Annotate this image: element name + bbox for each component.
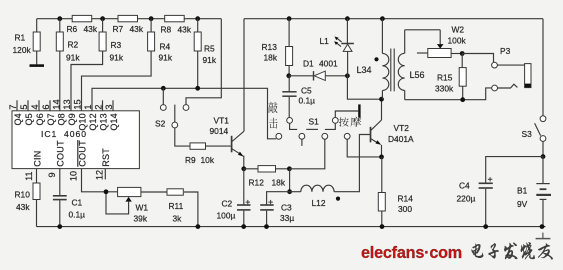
node: battery top junction <box>541 154 546 159</box>
resistor R7 <box>118 15 138 21</box>
svg-text:0.1µ: 0.1µ <box>299 96 316 106</box>
capacitor C2 <box>237 169 251 227</box>
svg-text:15: 15 <box>73 99 83 109</box>
svg-text:C5: C5 <box>301 86 312 96</box>
svg-text:Q8: Q8 <box>56 113 66 125</box>
switch S1 massage contact <box>332 118 338 124</box>
wire: VT1 collector to right rail <box>243 19 245 132</box>
wire: VT2 collector up <box>381 99 383 120</box>
wire: ground rail <box>37 226 546 228</box>
svg-text:300: 300 <box>398 204 412 214</box>
diode D1 4001 <box>289 71 348 80</box>
node: rail tap R2 <box>57 16 62 21</box>
capacitor C1 <box>53 169 67 227</box>
resistor R14 <box>378 193 385 227</box>
transistor VT1 9014 <box>232 131 244 157</box>
resistor R6 <box>72 15 92 21</box>
svg-text:P3: P3 <box>500 46 511 56</box>
node: D1 anode junction <box>286 73 291 78</box>
label knock (qiao ji) <box>269 102 278 129</box>
node: VT2 collector junction <box>379 97 384 102</box>
wire: R3 to IC pin 13 <box>71 51 103 111</box>
svg-text:12: 12 <box>94 170 104 180</box>
svg-text:9V: 9V <box>517 199 528 209</box>
svg-text:3: 3 <box>104 104 114 109</box>
wire: L12 left lead <box>290 191 301 193</box>
svg-text:elecfans·com: elecfans·com <box>361 244 462 262</box>
winding polarity dot L12 <box>336 197 340 201</box>
wire: emitter to R14 <box>381 157 383 193</box>
svg-text:9: 9 <box>47 172 57 177</box>
switch S3 <box>535 116 546 142</box>
wire: battery node to C4 <box>486 157 543 183</box>
svg-text:13: 13 <box>62 99 72 109</box>
resistor R10 <box>33 169 40 227</box>
svg-text:R9: R9 <box>185 155 196 165</box>
LED L1 <box>334 19 354 76</box>
wire: R2 to IC pin 14 <box>59 51 61 111</box>
svg-text:C3: C3 <box>281 203 292 213</box>
wire: left top supply rail <box>37 18 222 20</box>
connector P3 tip contact <box>492 62 498 68</box>
node: C4 ground <box>483 224 488 229</box>
svg-text:R3: R3 <box>111 40 122 50</box>
node: C1 ground <box>57 224 62 229</box>
wire: IC pin10 to W1 <box>82 169 118 192</box>
node: L34 top <box>380 16 385 21</box>
node: S2 stub junction <box>161 86 166 91</box>
svg-text:S3: S3 <box>522 129 533 139</box>
wire: P3 tip to plug <box>497 64 524 66</box>
svg-text:43k: 43k <box>84 24 98 34</box>
resistor R4 <box>148 19 155 51</box>
logo trademark mark <box>542 233 544 239</box>
wire: L56 bottom rail <box>405 88 492 100</box>
battery B1 9V <box>536 157 551 227</box>
svg-text:4001: 4001 <box>319 59 338 69</box>
svg-text:91k: 91k <box>159 53 173 63</box>
resistor R8 <box>165 15 185 21</box>
svg-text:10: 10 <box>69 171 79 181</box>
svg-text:91k: 91k <box>203 55 217 65</box>
svg-text:91k: 91k <box>66 53 80 63</box>
svg-text:6: 6 <box>41 104 51 109</box>
svg-text:R8: R8 <box>161 25 172 35</box>
connector P3 ring contact <box>492 85 498 91</box>
svg-text:0.1µ: 0.1µ <box>69 210 86 220</box>
wire: S1 to VT2 emitter <box>347 139 381 157</box>
svg-text:18k: 18k <box>264 53 278 63</box>
switch S1 pole contacts <box>276 133 282 139</box>
switch S2 <box>160 105 189 128</box>
svg-text:43k: 43k <box>16 202 30 212</box>
svg-text:Q6: Q6 <box>35 113 45 125</box>
svg-text:S2: S2 <box>155 119 166 129</box>
svg-text:L56: L56 <box>410 70 425 80</box>
svg-text:100k: 100k <box>448 36 467 46</box>
svg-text:Q13: Q13 <box>98 113 108 130</box>
node: VT1 emitter junction <box>241 166 246 171</box>
wire: VT2 emitter down <box>381 145 383 157</box>
svg-text:C4: C4 <box>459 181 470 191</box>
IC pin stubs (7,5,4,6,2,3) <box>16 100 18 111</box>
wire: S2 common to R9 <box>175 128 190 146</box>
svg-text:33µ: 33µ <box>280 213 294 223</box>
logo Chinese (dianzi fashaoyou) <box>472 242 554 260</box>
resistor R5 <box>194 19 201 89</box>
transformer core <box>390 49 392 92</box>
svg-text:91k: 91k <box>110 53 124 63</box>
node: R5 bottom junction <box>195 86 200 91</box>
svg-text:COUT: COUT <box>56 140 66 167</box>
svg-text:L34: L34 <box>357 65 372 75</box>
resistor R3 <box>99 19 106 51</box>
potentiometer W1 <box>106 187 141 214</box>
svg-text:C2: C2 <box>222 199 233 209</box>
svg-text:5: 5 <box>19 104 29 109</box>
svg-text:Q7: Q7 <box>46 113 56 125</box>
wire: right top supply rail <box>244 18 543 20</box>
svg-text:43k: 43k <box>178 25 192 35</box>
resistor R2 <box>56 19 63 51</box>
node: B1 ground <box>540 224 545 229</box>
wire: S3 to battery node <box>542 141 544 156</box>
wire: VT1 emitter down <box>243 156 245 169</box>
potentiometer W2 <box>417 30 462 58</box>
ground <box>30 64 45 67</box>
svg-text:R13: R13 <box>262 42 278 52</box>
svg-text:S1: S1 <box>309 117 320 127</box>
node: R11 ground <box>196 224 201 229</box>
svg-text:IC1 4060: IC1 4060 <box>41 129 86 139</box>
svg-text:120k: 120k <box>13 45 32 55</box>
resistor R13 <box>286 19 293 76</box>
svg-text:3k: 3k <box>173 214 183 224</box>
wire: R4 to IC pin 15 <box>82 51 152 111</box>
wire: S2 left contact stub <box>162 88 164 104</box>
svg-text:W2: W2 <box>452 25 465 35</box>
electrode bar <box>358 104 360 117</box>
node: L1 top <box>345 16 350 21</box>
svg-text:D1: D1 <box>303 59 314 69</box>
IC pin 12 stub <box>104 169 106 180</box>
svg-text:R2: R2 <box>68 40 79 50</box>
node: C2 ground <box>241 224 246 229</box>
wire: S1 nc stub <box>301 139 303 146</box>
wire: L12 to VT2 base <box>334 135 370 192</box>
wire: D1 junction to VT2 collector <box>347 76 381 99</box>
svg-text:W1: W1 <box>136 203 149 213</box>
svg-text:18k: 18k <box>272 178 286 188</box>
svg-text:Q4: Q4 <box>13 113 23 125</box>
svg-text:39k: 39k <box>134 214 148 224</box>
svg-text:Q5: Q5 <box>24 113 34 125</box>
svg-text:VT1: VT1 <box>214 116 230 126</box>
node: R13 top <box>287 16 292 21</box>
svg-text:1: 1 <box>83 104 93 109</box>
capacitor C3 <box>260 192 289 227</box>
wire: IC pin1 rail to knock contact <box>92 88 276 139</box>
P3 ring spring contact <box>498 84 518 88</box>
svg-text:330k: 330k <box>435 84 454 94</box>
svg-text:11: 11 <box>24 171 34 180</box>
wire: W1 to R11 <box>141 191 167 193</box>
node: rail tap R5 <box>195 16 200 21</box>
node: W1 left junction <box>104 189 109 194</box>
capacitor C5 <box>282 76 296 118</box>
svg-text:VT2: VT2 <box>394 123 410 133</box>
wire: left rail down to S2 right contact <box>186 19 221 105</box>
svg-text:CIN: CIN <box>32 150 42 166</box>
capacitor C4 <box>479 177 493 227</box>
winding polarity dot L34 <box>374 57 378 61</box>
node: R15 bottom junction <box>460 97 465 102</box>
node: C3 ground <box>264 224 269 229</box>
svg-text:R5: R5 <box>204 44 215 54</box>
IC U1 4060 body <box>12 111 139 169</box>
svg-text:Q9: Q9 <box>67 113 77 125</box>
svg-text:R6: R6 <box>67 24 78 34</box>
svg-text:14: 14 <box>52 99 62 109</box>
node: VT2 emitter junction <box>379 155 384 160</box>
svg-text:43k: 43k <box>130 24 144 34</box>
node: W2/R15 junction <box>460 51 465 56</box>
svg-text:R15: R15 <box>437 73 453 83</box>
resistor R9 <box>190 143 206 149</box>
inductor L12 <box>301 185 334 192</box>
wire: R11 to ground <box>184 192 198 227</box>
inductor L56 secondary <box>398 30 404 100</box>
resistor R1 <box>33 19 40 65</box>
svg-text:L12: L12 <box>312 198 326 208</box>
svg-text:D401A: D401A <box>388 134 414 144</box>
svg-text:10k: 10k <box>201 155 215 165</box>
wire: right rail down to S3 <box>542 19 544 116</box>
transistor VT2 D401A <box>371 120 382 145</box>
svg-text:7: 7 <box>8 104 18 109</box>
svg-text:R11: R11 <box>169 201 184 211</box>
svg-text:2: 2 <box>94 104 104 109</box>
svg-text:100µ: 100µ <box>217 211 236 221</box>
node: D1 cathode junction <box>345 73 350 78</box>
label massage (an mo) <box>339 117 362 127</box>
svg-text:R14: R14 <box>398 194 414 204</box>
svg-text:R10: R10 <box>15 190 31 200</box>
svg-text:R1: R1 <box>15 33 26 43</box>
svg-text:COUT: COUT <box>77 140 87 167</box>
svg-text:B1: B1 <box>517 186 528 196</box>
node: C3/L12 junction <box>287 189 292 194</box>
svg-text:220µ: 220µ <box>457 194 476 204</box>
resistor R11 <box>167 189 183 195</box>
svg-text:R12: R12 <box>249 178 265 188</box>
svg-text:R4: R4 <box>160 42 171 52</box>
svg-text:C1: C1 <box>72 198 83 208</box>
connector plug body <box>525 64 531 88</box>
node: R14 ground <box>380 224 385 229</box>
svg-text:9014: 9014 <box>210 126 229 136</box>
switch S1 knock contact <box>287 118 293 124</box>
node: rail tap R3 <box>100 16 105 21</box>
resistor R15 <box>459 54 466 100</box>
wire: massage contact to electrode <box>335 111 358 118</box>
svg-text:Q14: Q14 <box>109 113 119 130</box>
svg-text:4: 4 <box>30 104 40 109</box>
node: R12 right junction <box>287 166 292 171</box>
svg-text:RST: RST <box>101 148 111 167</box>
wire: R9 to VT1 base <box>206 145 231 147</box>
svg-text:R7: R7 <box>113 24 124 34</box>
svg-text:Q12: Q12 <box>88 113 98 130</box>
wire: down to C3/L12 node <box>289 169 291 192</box>
wire: W2 junction to P3 tip <box>462 54 493 63</box>
wire: L56 top to W2 wiper <box>405 29 441 31</box>
svg-text:L1: L1 <box>320 36 330 46</box>
switch S1 levers <box>290 123 298 129</box>
wire: R12 junction to S1 contact <box>289 139 324 169</box>
resistor R12 <box>244 166 290 172</box>
node: rail tap R4 <box>149 16 154 21</box>
inductor L34 primary <box>382 19 388 100</box>
